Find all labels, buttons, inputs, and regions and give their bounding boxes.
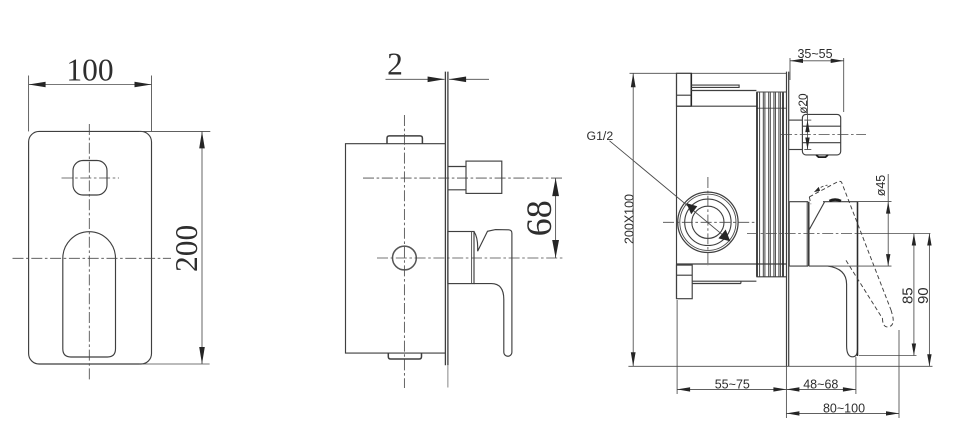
front-view vertical centerline <box>88 124 90 381</box>
dimension 200 line <box>201 131 203 364</box>
port centerlines <box>707 177 709 266</box>
dimension 48~68 <box>855 357 857 394</box>
bottom baseline extension <box>628 365 932 367</box>
side-view handle hub <box>448 232 474 284</box>
rear-view sleeve between plate and handle <box>789 202 808 266</box>
dashed raised lever position <box>809 181 891 310</box>
rear-view wall plate edge <box>786 72 788 367</box>
rear-view bottom mounting ear <box>677 265 693 299</box>
dimension diameter45 <box>858 201 892 203</box>
side-view top mounting tab <box>387 136 422 144</box>
dimension 2 line and arrows <box>386 78 445 80</box>
rear-view handle base bottom and lever <box>809 202 858 357</box>
side-view valve body box <box>346 144 446 353</box>
rear-view body top step line <box>677 105 757 107</box>
rear-view step line across threads <box>756 107 786 109</box>
rear-view bottom thin strip <box>692 281 756 283</box>
G1/2 threaded port circles <box>678 192 738 252</box>
rear-view knob centerline <box>781 134 866 136</box>
svg-text:48~68: 48~68 <box>803 377 838 391</box>
rear-view diverter knob body <box>802 114 840 154</box>
dimension 80~100 <box>898 330 900 418</box>
rear-view top mounting ear <box>677 73 692 106</box>
rear-view handle base taper <box>809 202 824 230</box>
rear-view body top edge <box>691 90 756 92</box>
rear-view knob bottom tab <box>816 155 828 157</box>
svg-text:68: 68 <box>519 200 559 236</box>
front-view handle horizontal centerline <box>13 257 172 259</box>
rear-view handle pivot centerline <box>747 233 858 235</box>
dimension 68 line <box>555 178 557 258</box>
rear-view top thin strip <box>691 85 739 87</box>
dimension 55~75 <box>676 300 678 394</box>
dashed lever lower edge <box>846 260 883 318</box>
rear-view body bottom edge <box>677 263 787 265</box>
rear-view top extension line <box>630 72 787 74</box>
dimension 90 <box>928 234 930 367</box>
svg-text:200X100: 200X100 <box>622 194 636 244</box>
side-view wall plate edge (2mm) <box>444 72 446 366</box>
svg-text:ø20: ø20 <box>796 93 810 114</box>
svg-text:100: 100 <box>66 53 113 88</box>
dimension 200X100 line <box>632 73 634 366</box>
dimension 85 <box>913 234 915 356</box>
rear-view diverter knob stem lines <box>789 119 802 121</box>
rear-view handle base button <box>829 200 841 201</box>
dimension 200 extension lines <box>139 130 210 132</box>
centerline extension for 85/90 <box>858 233 930 235</box>
svg-text:200: 200 <box>169 225 204 272</box>
side-view bottom mounting tab <box>388 353 421 359</box>
svg-text:ø45: ø45 <box>874 175 888 197</box>
svg-text:90: 90 <box>915 287 932 304</box>
G1/2 leader line <box>610 141 731 241</box>
side-view diverter knob stem <box>448 166 466 168</box>
rotation indicator dashed arc <box>817 185 828 190</box>
svg-text:85: 85 <box>899 287 916 304</box>
rear-view threaded adjustment section <box>756 92 758 277</box>
dimension 35~55 <box>789 58 791 80</box>
side-view handle hub inner edge <box>471 232 473 284</box>
side-view knob horizontal centerline <box>363 177 563 179</box>
side-view box vertical centerline <box>403 115 405 388</box>
side-view screw boss circle <box>393 246 417 270</box>
side-view diverter knob body <box>466 161 502 193</box>
dimension diameter20 <box>807 96 809 150</box>
dimension 100 extension lines <box>28 76 30 132</box>
lever tip extension line <box>859 355 917 357</box>
dimension 100 arrowheads <box>29 82 46 88</box>
front-view button horizontal centerline <box>62 177 120 179</box>
rear-view handle base top edge <box>823 201 858 203</box>
dimension 200 arrowheads <box>199 131 205 148</box>
G1/2 leader arrowheads <box>686 203 697 214</box>
svg-text:G1/2: G1/2 <box>587 129 614 143</box>
dimension 100 line <box>29 84 152 86</box>
front-view wall plate outline <box>29 131 152 364</box>
side-view handle lever outline <box>474 230 512 357</box>
dashed lever rounded tip <box>883 310 894 327</box>
svg-text:55~75: 55~75 <box>715 377 750 391</box>
svg-text:35~55: 35~55 <box>797 47 832 61</box>
front-view diverter button <box>73 161 107 196</box>
side-view wall plate lower thin edge <box>447 365 449 387</box>
rear-view body left edge <box>676 73 678 298</box>
front-view handle outline <box>63 232 116 357</box>
svg-text:80~100: 80~100 <box>823 402 865 416</box>
dimension 68 arrowheads <box>552 178 559 196</box>
side-view handle horizontal centerline <box>377 257 564 259</box>
svg-text:2: 2 <box>387 47 403 82</box>
